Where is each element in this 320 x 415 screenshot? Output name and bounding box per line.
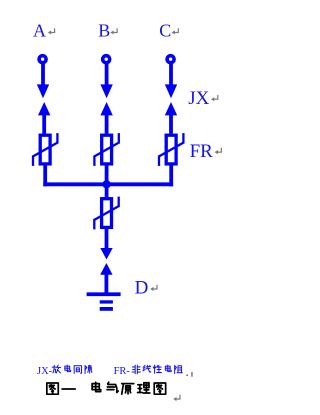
svg-text:B: B xyxy=(98,21,110,41)
svg-text:C: C xyxy=(159,21,171,41)
svg-text:FR-: FR- xyxy=(114,366,131,377)
svg-text:JX-: JX- xyxy=(37,366,53,377)
svg-text:FR: FR xyxy=(190,141,214,162)
svg-text:D: D xyxy=(135,277,149,298)
svg-text:A: A xyxy=(33,21,46,41)
svg-text:JX: JX xyxy=(188,88,209,109)
